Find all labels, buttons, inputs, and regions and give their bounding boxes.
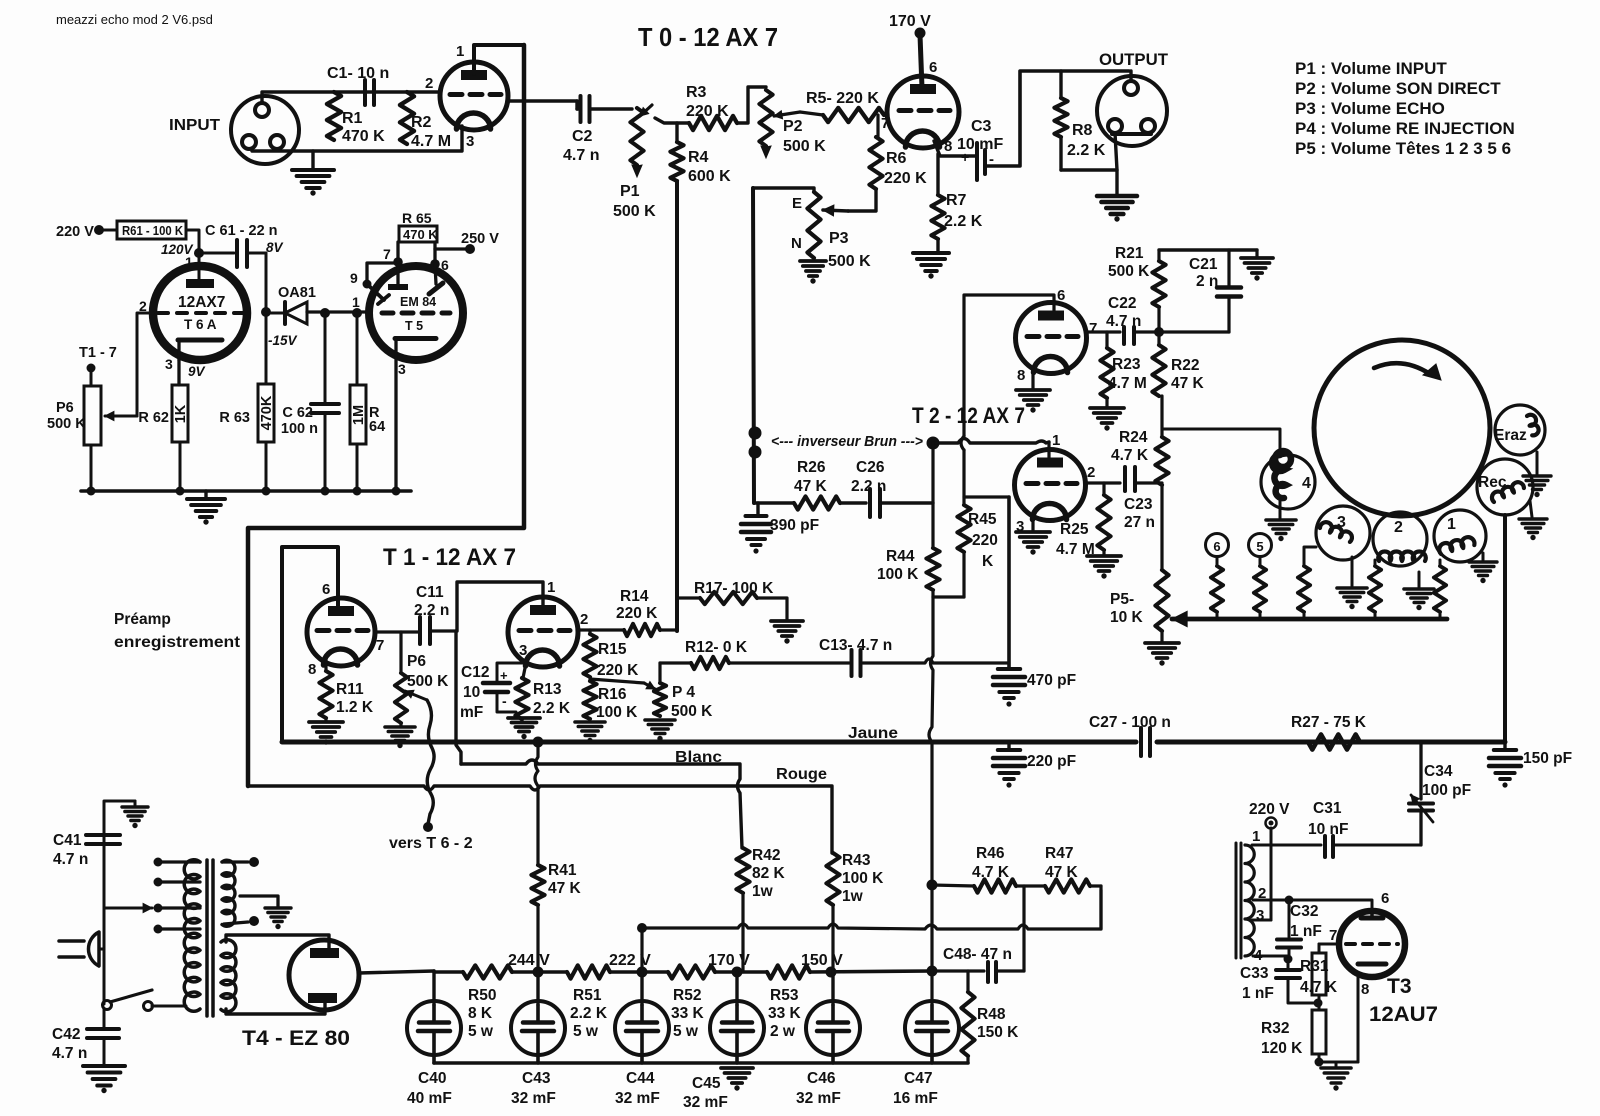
svg-text:3: 3 <box>519 642 527 659</box>
svg-text:10 nF: 10 nF <box>1308 821 1348 838</box>
resistor head5 <box>1259 557 1262 566</box>
svg-text:470 K: 470 K <box>342 128 385 145</box>
ground C45 <box>721 1066 753 1070</box>
svg-text:32 mF: 32 mF <box>796 1090 841 1107</box>
wire C13 to 470pF <box>863 659 1009 663</box>
resistor R46 <box>974 879 1016 892</box>
wire P3 E terminal <box>753 188 814 192</box>
svg-text:2: 2 <box>425 75 433 92</box>
svg-text:2.2 K: 2.2 K <box>1067 142 1106 159</box>
svg-text:3: 3 <box>1256 907 1264 924</box>
capacitor C2 <box>579 96 583 122</box>
drum flywheel <box>1314 340 1490 516</box>
wire R44 to chain <box>930 885 933 1005</box>
svg-text:T 2 - 12 AX 7: T 2 - 12 AX 7 <box>912 403 1025 428</box>
svg-text:R51: R51 <box>573 987 602 1004</box>
resistor R26 <box>794 496 840 509</box>
transformer T4 primary taps <box>158 860 200 863</box>
svg-text:R7: R7 <box>946 192 967 209</box>
svg-text:C23: C23 <box>1124 496 1153 513</box>
connector INPUT <box>231 96 299 164</box>
resistor R64 box <box>352 308 362 318</box>
svg-text:+: + <box>961 149 969 165</box>
tube T1a triode <box>307 598 375 666</box>
svg-text:100 n: 100 n <box>281 421 318 437</box>
svg-text:9: 9 <box>350 270 358 286</box>
svg-text:R27 - 75 K: R27 - 75 K <box>1291 714 1367 731</box>
capacitor C31 <box>1271 844 1321 847</box>
svg-text:220 pF: 220 pF <box>1027 753 1076 770</box>
ground R25 <box>1102 550 1105 554</box>
svg-text:2: 2 <box>1394 519 1403 536</box>
svg-text:16 mF: 16 mF <box>893 1090 938 1107</box>
switch mains <box>103 1001 112 1010</box>
svg-text:C40: C40 <box>418 1070 446 1087</box>
potentiometer P5 <box>1155 570 1168 631</box>
svg-text:C11: C11 <box>416 584 444 601</box>
tube T0b triode <box>887 76 959 148</box>
capacitor C3 electrolytic <box>975 143 979 180</box>
svg-text:8: 8 <box>1017 367 1025 384</box>
svg-text:T 1 - 12 AX 7: T 1 - 12 AX 7 <box>383 544 516 571</box>
resistor R62 box <box>177 360 180 385</box>
svg-text:R5- 220 K: R5- 220 K <box>806 90 879 107</box>
capacitor C62 <box>320 308 330 318</box>
svg-text:1w: 1w <box>842 888 864 905</box>
svg-text:vers T 6 - 2: vers T 6 - 2 <box>389 835 473 852</box>
wire T5 pin3 down <box>394 338 397 491</box>
wire input top <box>262 92 440 103</box>
svg-text:R44: R44 <box>886 548 915 565</box>
svg-text:C42: C42 <box>52 1026 80 1043</box>
wire T1b pin2 <box>578 628 624 631</box>
wire Rouge <box>248 786 832 853</box>
resistor head1 <box>1439 560 1442 566</box>
svg-text:8: 8 <box>944 138 952 155</box>
svg-text:9V: 9V <box>188 364 206 379</box>
wire R5 to tube <box>884 113 888 116</box>
ground R23 <box>1105 398 1108 406</box>
svg-text:6: 6 <box>1213 539 1220 554</box>
transformer T4 sec HV <box>221 940 236 1012</box>
resistor R14 <box>624 624 660 636</box>
ground head4 <box>1279 500 1282 518</box>
svg-text:T3: T3 <box>1387 975 1412 998</box>
svg-text:C31: C31 <box>1313 800 1342 817</box>
ground rail symbol <box>204 491 207 498</box>
svg-text:47 K: 47 K <box>1171 375 1205 392</box>
ground R17 <box>771 619 803 623</box>
svg-text:OA81: OA81 <box>278 285 316 301</box>
tube T5 EM84 <box>369 266 463 360</box>
svg-text:1: 1 <box>352 294 360 310</box>
capacitor 390pF <box>756 503 759 514</box>
svg-text:P3: P3 <box>829 230 849 247</box>
svg-text:R4: R4 <box>688 149 709 166</box>
capacitor C23 <box>1123 467 1127 491</box>
head 3 <box>1316 506 1370 560</box>
svg-text:1: 1 <box>547 579 555 596</box>
svg-text:C44: C44 <box>626 1070 655 1087</box>
svg-text:C43: C43 <box>522 1070 551 1087</box>
resistor R41 <box>535 742 538 865</box>
svg-text:R25: R25 <box>1060 521 1089 538</box>
svg-text:EM 84: EM 84 <box>400 295 436 309</box>
resistor R12 <box>691 657 729 669</box>
svg-text:R13: R13 <box>533 681 562 698</box>
svg-text:8V: 8V <box>266 240 284 255</box>
tube T1b triode <box>508 597 578 667</box>
svg-text:P5-: P5- <box>1110 591 1134 608</box>
wire plate supply vertical <box>675 181 679 631</box>
wire R24 to P5 <box>1160 485 1163 570</box>
wire tap2 to pin6 <box>1285 896 1294 905</box>
svg-text:R11: R11 <box>336 681 364 698</box>
svg-text:220 K: 220 K <box>686 103 729 120</box>
svg-text:10 K: 10 K <box>1110 609 1144 626</box>
svg-text:220: 220 <box>972 532 998 549</box>
transformer T3 core <box>1235 843 1238 958</box>
svg-text:1: 1 <box>1052 432 1060 449</box>
svg-text:C48- 47 n: C48- 47 n <box>943 946 1012 963</box>
ground Rec <box>1530 501 1532 517</box>
svg-text:R31: R31 <box>1300 958 1329 975</box>
svg-text:500 K: 500 K <box>783 138 826 155</box>
ground P4 <box>645 718 675 722</box>
svg-text:R12- 0 K: R12- 0 K <box>685 639 748 656</box>
wire long loop left <box>248 45 524 786</box>
svg-text:R3: R3 <box>686 84 707 101</box>
ground R11 <box>324 718 327 721</box>
resistor R43 <box>826 853 839 905</box>
resistor R65 box <box>399 226 437 242</box>
wire 470pF feed <box>1007 497 1011 667</box>
resistor R48 <box>966 971 969 992</box>
svg-text:1w: 1w <box>752 883 774 900</box>
svg-text:4: 4 <box>1302 475 1311 492</box>
wire C13 line <box>729 661 849 664</box>
svg-text:R 63: R 63 <box>219 410 250 426</box>
svg-text:32 mF: 32 mF <box>683 1094 728 1111</box>
svg-text:R6: R6 <box>886 150 907 167</box>
svg-text:1: 1 <box>1447 516 1456 533</box>
capacitor C32 <box>1288 900 1291 937</box>
ground T2b pin3 <box>1031 516 1034 530</box>
svg-text:100 K: 100 K <box>877 566 919 583</box>
svg-text:1K: 1K <box>173 404 189 423</box>
ground Eraz <box>1536 452 1539 474</box>
wire R21 top <box>1159 248 1257 251</box>
svg-text:4.7 M: 4.7 M <box>1108 375 1147 392</box>
potentiometer P4 <box>658 663 661 683</box>
capacitor C22 <box>1122 327 1126 344</box>
svg-text:47 K: 47 K <box>794 478 828 495</box>
capacitor 150pF <box>1503 742 1506 748</box>
svg-text:64: 64 <box>369 419 385 435</box>
svg-text:6: 6 <box>441 257 449 273</box>
diode OA81 <box>283 302 287 324</box>
svg-text:8 K: 8 K <box>468 1005 493 1022</box>
svg-text:1: 1 <box>1252 828 1260 845</box>
ground R13 <box>520 719 523 721</box>
ground R16 <box>575 720 605 724</box>
wire R44 long vertical <box>929 597 933 885</box>
svg-text:10: 10 <box>463 684 480 701</box>
wire pin6 hop <box>961 436 964 450</box>
svg-text:P 4: P 4 <box>672 684 695 701</box>
svg-text:R43: R43 <box>842 852 871 869</box>
capacitor C33 <box>1287 959 1290 968</box>
svg-text:T 5: T 5 <box>405 319 423 333</box>
drum arrow <box>1374 363 1430 374</box>
potentiometer P1 <box>640 105 652 116</box>
capacitor C48 <box>932 969 984 972</box>
svg-text:32 mF: 32 mF <box>511 1090 556 1107</box>
wire C3 to output loop <box>985 71 1129 166</box>
ground head1 <box>1482 553 1485 560</box>
resistor R45 <box>962 497 965 505</box>
transformer T4 sec top <box>222 860 235 926</box>
svg-text:C22: C22 <box>1108 295 1136 312</box>
svg-text:4.7 n: 4.7 n <box>563 147 599 164</box>
svg-text:500 K: 500 K <box>407 673 449 690</box>
svg-text:470K: 470K <box>259 395 275 430</box>
resistor R25 <box>1102 483 1105 495</box>
svg-text:250 V: 250 V <box>461 231 499 247</box>
wire Rec to Jaune <box>1503 515 1507 742</box>
svg-text:32 mF: 32 mF <box>615 1090 660 1107</box>
svg-text:C2: C2 <box>572 128 593 145</box>
bus heads wiper <box>1172 617 1447 622</box>
ground head2 <box>1418 572 1421 587</box>
svg-text:P2 : Volume SON DIRECT: P2 : Volume SON DIRECT <box>1295 79 1501 98</box>
wire T1b grid loop <box>457 582 543 631</box>
capacitor C46 electrolytic <box>831 972 834 1005</box>
svg-text:Jaune: Jaune <box>848 725 898 742</box>
svg-text:R16: R16 <box>598 686 627 703</box>
svg-text:R46: R46 <box>976 845 1005 862</box>
svg-text:8: 8 <box>308 661 316 678</box>
resistor head3 <box>1304 547 1316 566</box>
resistor R8 <box>1059 71 1062 98</box>
pin9 wire <box>367 263 397 284</box>
svg-text:C46: C46 <box>807 1070 836 1087</box>
wires R65 to pins <box>393 257 403 267</box>
capacitor C11 <box>418 617 422 644</box>
svg-text:2.2 n: 2.2 n <box>851 478 886 495</box>
svg-text:C47: C47 <box>904 1070 932 1087</box>
resistor R61 box <box>117 221 186 239</box>
wire R3 up to P2 <box>737 87 766 123</box>
tube T2a triode <box>1016 303 1087 374</box>
svg-text:150 pF: 150 pF <box>1523 750 1572 767</box>
svg-text:R26: R26 <box>797 459 826 476</box>
svg-text:390 pF: 390 pF <box>770 517 819 534</box>
capacitor C47 electrolytic <box>930 1005 934 1022</box>
svg-text:E: E <box>792 195 802 212</box>
svg-text:500 K: 500 K <box>828 253 871 270</box>
svg-text:R 65: R 65 <box>402 210 432 226</box>
resistor R1 <box>327 92 341 140</box>
svg-text:2.2 n: 2.2 n <box>414 602 449 619</box>
wire ground rail bottom <box>434 1061 968 1065</box>
resistor R13 <box>523 663 526 678</box>
resistor head6 <box>1216 557 1219 566</box>
capacitor C1 <box>361 80 374 105</box>
svg-text:5 w: 5 w <box>468 1023 494 1040</box>
svg-text:500 K: 500 K <box>613 203 656 220</box>
svg-text:47 K: 47 K <box>548 880 582 897</box>
transformer T4 core <box>205 860 209 1016</box>
node inverseur dots <box>749 427 762 440</box>
resistor head2 <box>1374 560 1377 566</box>
svg-text:Eraz: Eraz <box>1494 427 1527 444</box>
potentiometer P2 <box>759 90 772 146</box>
head Eraz <box>1495 405 1545 455</box>
tube T6A 12AX7 <box>153 266 247 360</box>
svg-text:C33: C33 <box>1240 965 1269 982</box>
svg-text:+: + <box>500 668 508 683</box>
svg-text:8: 8 <box>1361 981 1369 998</box>
svg-text:1: 1 <box>456 43 464 60</box>
svg-text:6: 6 <box>1381 890 1389 907</box>
svg-text:1.2 K: 1.2 K <box>336 699 374 716</box>
svg-text:C45: C45 <box>692 1075 721 1092</box>
svg-text:R50: R50 <box>468 987 496 1004</box>
svg-text:R1: R1 <box>342 110 363 127</box>
resistor R27 <box>1308 734 1360 749</box>
potentiometer P3 <box>807 192 820 258</box>
svg-text:120 K: 120 K <box>1261 1040 1303 1057</box>
connector OUTPUT <box>1097 76 1167 146</box>
wire T2a pin7 <box>1086 330 1120 333</box>
svg-text:2.2 K: 2.2 K <box>533 700 571 717</box>
svg-text:6: 6 <box>322 581 330 598</box>
svg-text:R47: R47 <box>1045 845 1073 862</box>
wire power chain <box>434 970 463 974</box>
svg-text:C27 - 100 n: C27 - 100 n <box>1089 714 1171 731</box>
svg-text:Rec: Rec <box>1478 474 1507 491</box>
svg-text:3: 3 <box>398 361 406 377</box>
capacitor 470pF <box>998 667 1020 671</box>
svg-text:33 K: 33 K <box>768 1005 802 1022</box>
svg-text:P6: P6 <box>56 400 74 416</box>
capacitor C13 <box>850 650 854 676</box>
svg-text:2: 2 <box>1087 464 1095 481</box>
plug mains <box>88 932 99 966</box>
svg-text:2: 2 <box>1258 885 1266 902</box>
capacitor C41 <box>104 801 135 846</box>
svg-text:P1 : Volume INPUT: P1 : Volume INPUT <box>1295 59 1447 78</box>
wire C11 down to Blanc <box>456 631 461 764</box>
ground T2a pin8 <box>1031 368 1034 388</box>
svg-text:5 w: 5 w <box>573 1023 599 1040</box>
svg-text:7: 7 <box>1089 320 1097 337</box>
wire R46 R47 junction <box>927 880 938 891</box>
svg-text:222 V: 222 V <box>609 952 651 969</box>
resistor R63 box <box>265 253 268 384</box>
svg-text:C41: C41 <box>53 832 82 849</box>
svg-text:T1 - 7: T1 - 7 <box>79 345 117 361</box>
capacitor C27 <box>1139 728 1143 756</box>
ground P5 <box>1160 631 1163 641</box>
resistor R2 <box>400 92 414 144</box>
svg-text:R22: R22 <box>1171 357 1199 374</box>
capacitor C45 electrolytic <box>735 972 738 1005</box>
svg-text:40 mF: 40 mF <box>407 1090 452 1107</box>
svg-text:T 6 A: T 6 A <box>184 317 217 332</box>
wire inverseur vertical <box>753 188 754 503</box>
svg-text:33 K: 33 K <box>671 1005 705 1022</box>
resistor R24 <box>1155 437 1168 485</box>
resistor R47 <box>1016 884 1045 887</box>
wire T0a pin1 to loop <box>474 45 524 74</box>
resistor R51 <box>567 965 610 978</box>
svg-text:Blanc: Blanc <box>675 749 722 766</box>
svg-text:P6: P6 <box>407 653 426 670</box>
wire T0b pin8 to C3 <box>934 141 977 156</box>
svg-text:4.7 n: 4.7 n <box>1106 313 1141 330</box>
ground rail T6A <box>81 489 411 493</box>
transformer T3 winding <box>1245 845 1254 956</box>
wire R15 R16 to P4 <box>590 679 644 683</box>
svg-text:R52: R52 <box>673 987 701 1004</box>
svg-text:500 K: 500 K <box>1108 263 1150 280</box>
resistor R31 box <box>1312 953 1326 995</box>
capacitor C40 electrolytic <box>432 971 435 1005</box>
svg-text:100 pF: 100 pF <box>1422 782 1471 799</box>
svg-text:150 V: 150 V <box>801 952 843 969</box>
svg-text:4.7 n: 4.7 n <box>52 1045 87 1062</box>
svg-text:R 62: R 62 <box>138 410 169 426</box>
wire R26 line <box>754 501 794 504</box>
wire input bottom <box>252 126 462 151</box>
head 1 <box>1434 510 1486 562</box>
svg-text:220 V: 220 V <box>1249 801 1290 818</box>
ground R21 top <box>1255 250 1258 257</box>
svg-text:Rouge: Rouge <box>776 766 827 783</box>
wire inner loop T1 <box>282 547 338 742</box>
svg-text:100 K: 100 K <box>596 704 638 721</box>
svg-text:100 K: 100 K <box>842 870 884 887</box>
svg-text:27 n: 27 n <box>1124 514 1155 531</box>
svg-text:4.7 K: 4.7 K <box>1300 979 1338 996</box>
capacitor C43 electrolytic <box>536 972 539 1005</box>
resistor R44 <box>931 443 934 548</box>
resistor R22 <box>1152 345 1165 396</box>
svg-text:3: 3 <box>1337 514 1346 531</box>
svg-text:R21: R21 <box>1115 245 1144 262</box>
svg-text:P3 : Volume ECHO: P3 : Volume ECHO <box>1295 99 1445 118</box>
wire P1 to R3 <box>655 118 689 123</box>
svg-text:1 nF: 1 nF <box>1242 985 1274 1002</box>
ground T3 <box>1335 1062 1338 1066</box>
svg-text:6: 6 <box>1057 287 1065 304</box>
wire Jaune bus <box>282 740 1136 745</box>
wire R8 bottom to connector ground <box>1061 170 1117 194</box>
capacitor C21 <box>1227 250 1230 287</box>
svg-text:7: 7 <box>383 246 391 262</box>
svg-text:C21: C21 <box>1189 256 1218 273</box>
svg-text:500 K: 500 K <box>671 703 713 720</box>
resistor R3 <box>689 116 737 130</box>
resistor R53 <box>767 965 810 978</box>
resistor R52 <box>668 965 715 978</box>
svg-text:C 61 - 22 n: C 61 - 22 n <box>205 223 278 239</box>
svg-text:-15V: -15V <box>268 333 298 348</box>
wire 222V line <box>642 890 1101 972</box>
svg-text:C32: C32 <box>1290 903 1318 920</box>
